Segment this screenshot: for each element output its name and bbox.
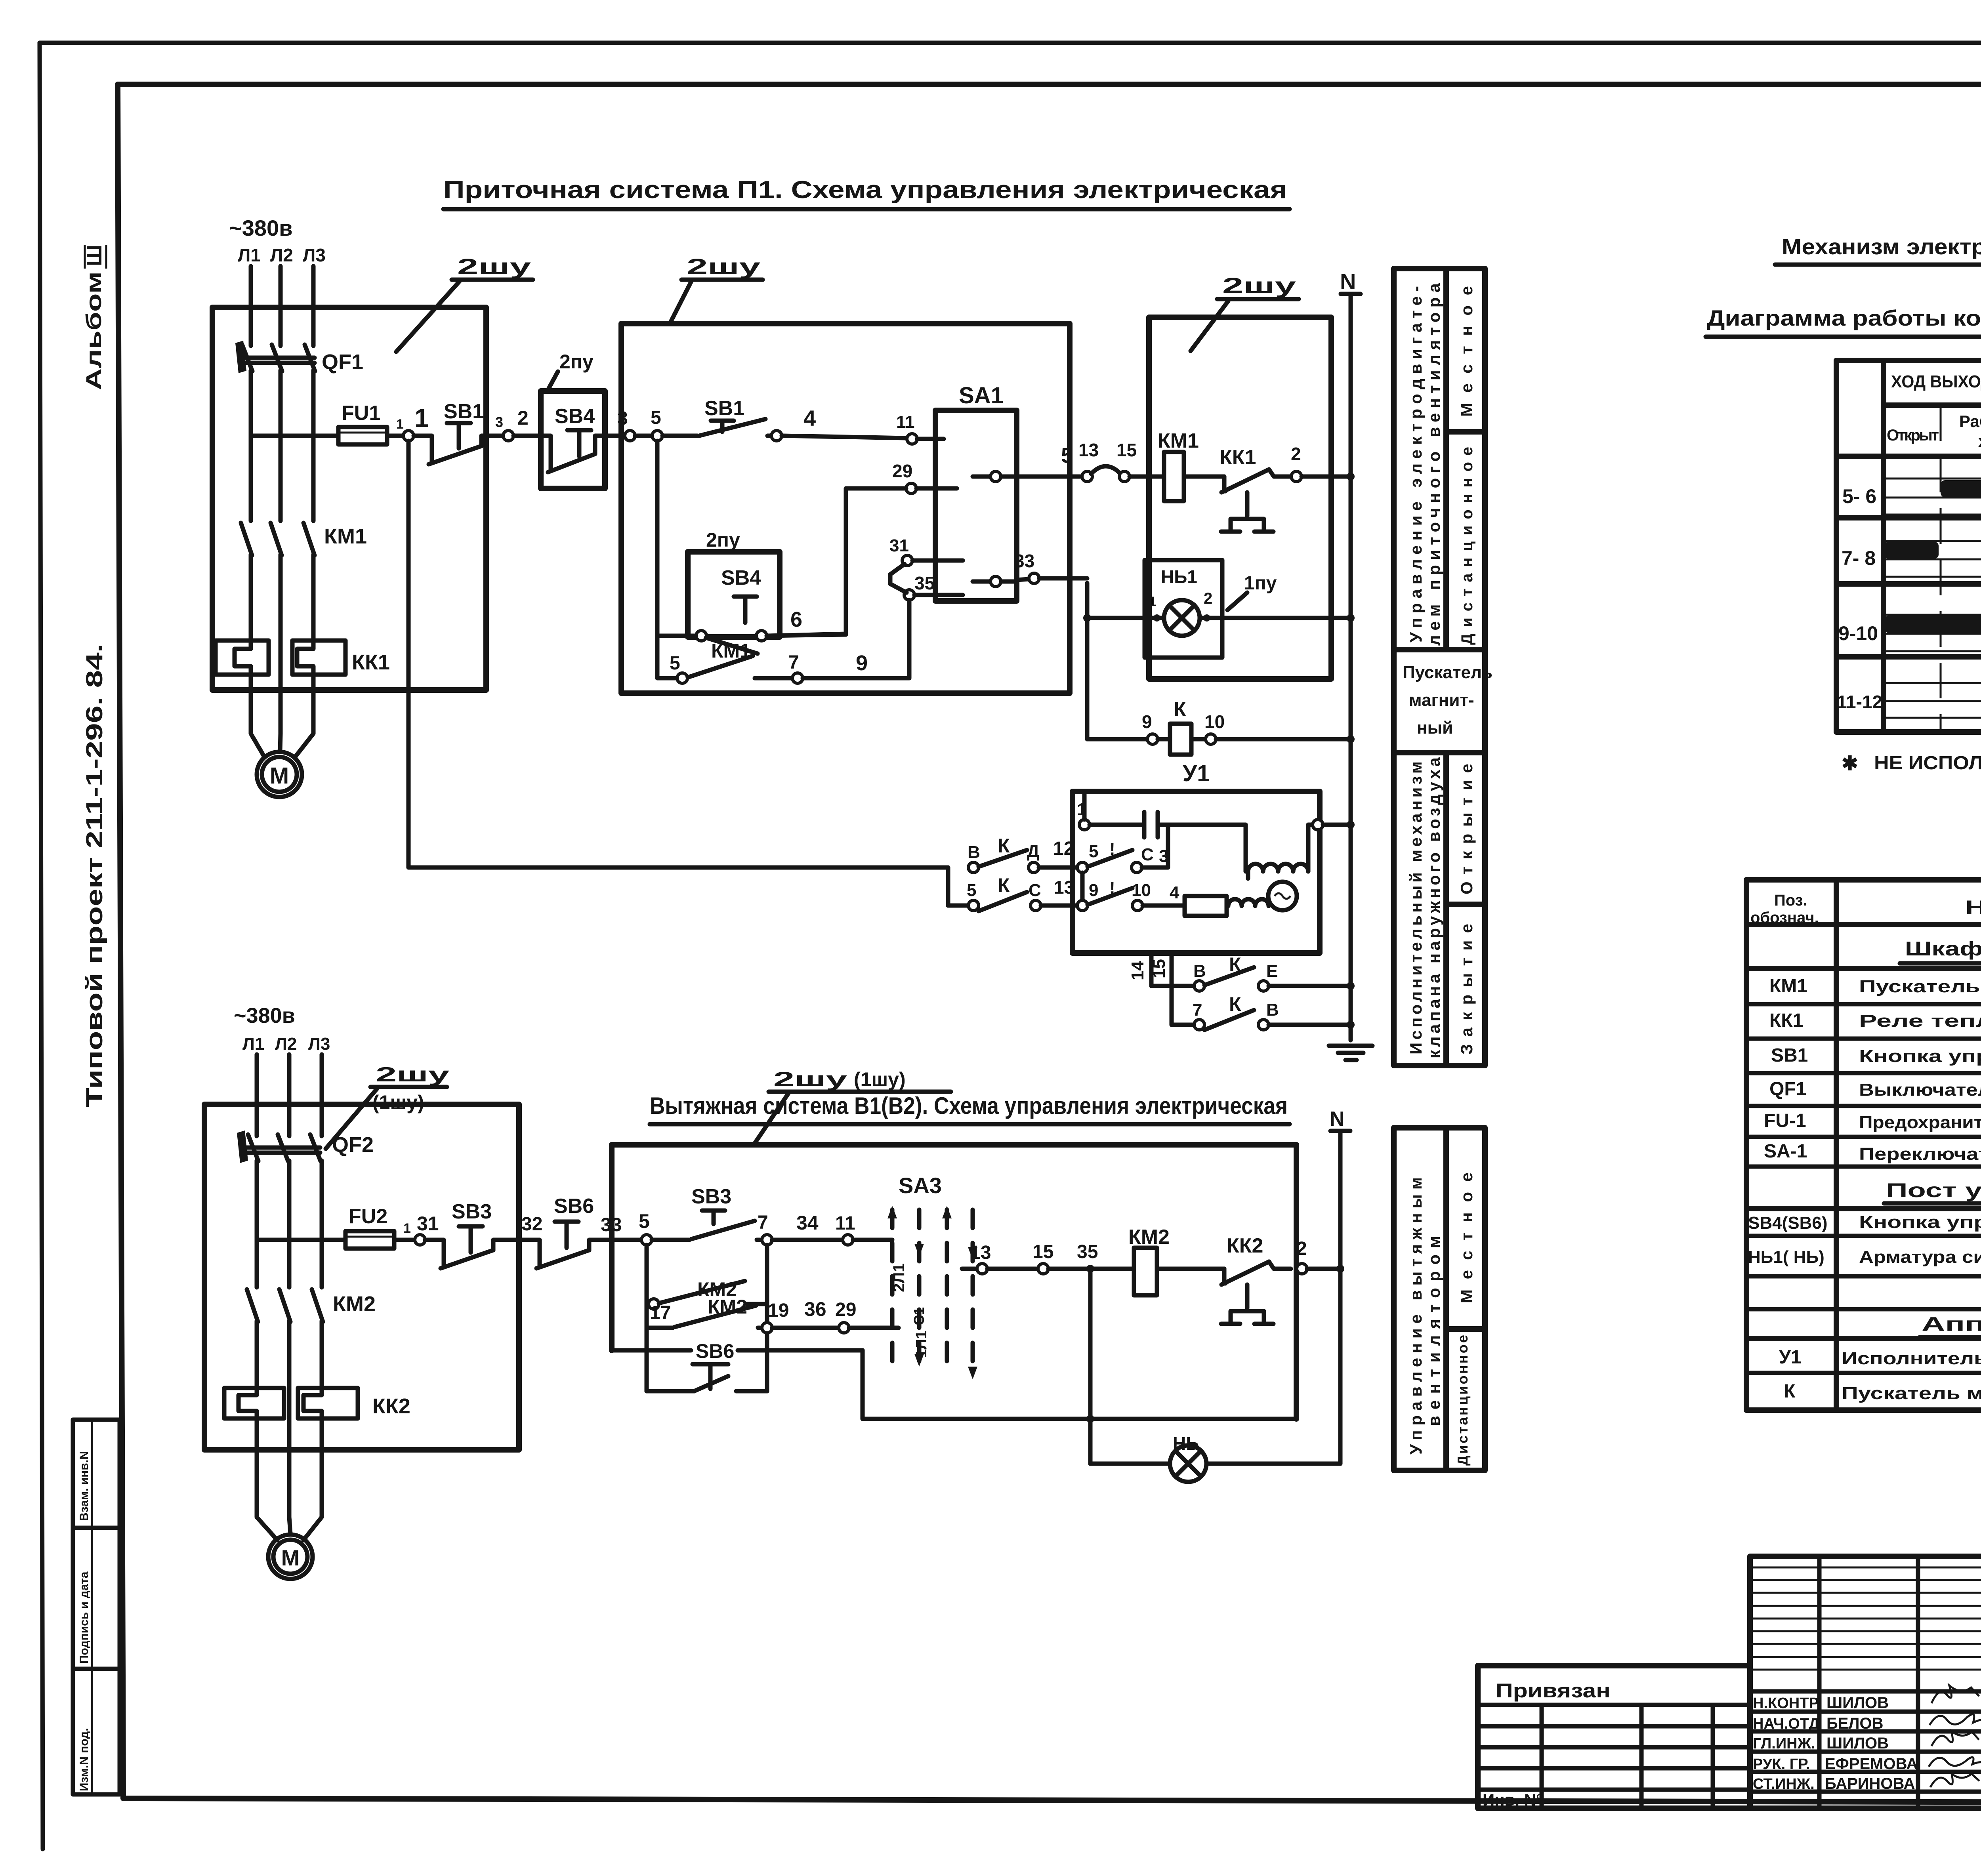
pushbutton SB1 (NC stop, cabinet) [414, 400, 503, 464]
svg-text:QF1: QF1 [1769, 1079, 1806, 1100]
stamp signatures [1753, 1685, 1981, 1792]
contactor main contacts KM2 [247, 1289, 376, 1322]
svg-text:11-12: 11-12 [1837, 692, 1882, 712]
parts section: Пост управления кнопочный [1746, 1179, 1981, 1209]
svg-text:13: 13 [1078, 440, 1099, 460]
wire L2 below QF2 [287, 1161, 292, 1287]
pushbutton post box 2ПУ [541, 391, 605, 488]
wire 2ПУ to node 3' [605, 434, 625, 438]
svg-text:7- 8: 7- 8 [1842, 547, 1876, 569]
svg-text:3: 3 [495, 414, 503, 430]
pushbutton SB4 (NC, post 2ПУ) [546, 405, 605, 472]
svg-text:ный: ный [1417, 718, 1453, 738]
svg-text:С1: С1 [911, 1307, 927, 1325]
svg-text:КМ1: КМ1 [1158, 429, 1199, 452]
wire rung2 left riser [946, 867, 950, 906]
parts row QF1 [1746, 1079, 1981, 1108]
wire phase L2 [279, 266, 283, 346]
parts row FU-1 [1746, 1110, 1981, 1137]
svg-text:SA3: SA3 [899, 1173, 942, 1198]
svg-text:НЬ1: НЬ1 [1161, 566, 1197, 587]
svg-text:15: 15 [1032, 1241, 1053, 1262]
pushbutton SB6 (NC stop, post) [527, 1195, 641, 1268]
pushbutton SB4 (NC, post, hold circuit) [657, 566, 767, 654]
svg-text:Подпись и дата: Подпись и дата [78, 1571, 91, 1664]
svg-text:SB3: SB3 [452, 1200, 492, 1223]
svg-text:клапана наружного воздуха: клапана наружного воздуха [1425, 757, 1443, 1058]
node 15 [1119, 471, 1130, 482]
wire vertical from node7 (2) [765, 1245, 769, 1391]
signal lamp HL1 [1164, 600, 1200, 636]
thermal relay heater KK1 (phase 3) [292, 641, 390, 675]
node 11 (2) [843, 1235, 853, 1245]
label column A outline [1394, 269, 1485, 1066]
wire fuse to node 1 [387, 434, 404, 438]
wire stub node 29 into SA1 [916, 486, 957, 491]
svg-text:1: 1 [414, 403, 429, 433]
parts section: Аппаратура по месту [1746, 1313, 1981, 1338]
svg-text:НЬ1( НЬ): НЬ1( НЬ) [1748, 1247, 1825, 1267]
svg-text:4: 4 [803, 406, 816, 431]
wire node35 drop to lamp [1088, 1273, 1093, 1464]
svg-text:Привязан: Привязан [1496, 1680, 1611, 1702]
svg-text:9: 9 [1142, 711, 1152, 732]
motor M2 [268, 1535, 313, 1579]
svg-text:ЕФРЕМОВА: ЕФРЕМОВА [1825, 1755, 1918, 1773]
limit switch diagram table [1836, 360, 1981, 732]
node 5 (junction to hold circuit) [652, 431, 662, 441]
wire SA1 contact2 to node 33 [1017, 579, 1029, 580]
wire node10 to N [1216, 737, 1351, 742]
parts row SB1 [1746, 1045, 1981, 1073]
wire phase L3 (2) [320, 1054, 324, 1136]
wire node33 to lamp junction [1039, 576, 1087, 581]
svg-text:Л2: Л2 [275, 1034, 297, 1054]
svg-text:2шу: 2шу [687, 254, 760, 279]
thermal relay contact KK1 (NC) [1220, 446, 1291, 532]
svg-text:SВ1: SВ1 [1771, 1045, 1808, 1066]
node 15 (2) [1038, 1264, 1048, 1274]
svg-text:Вытяжная система В1(В2). Схе: Вытяжная система В1(В2). Схема управлени… [650, 1092, 1288, 1119]
contact KM2 (aux 17-19) [647, 1296, 762, 1328]
wire node2 to N (2) [1307, 1267, 1340, 1271]
wire jumper 13-15 [1091, 466, 1120, 474]
svg-text:С: С [1141, 845, 1154, 864]
svg-text:С: С [1029, 881, 1041, 900]
svg-text:5: 5 [651, 407, 661, 428]
svg-text:КМ2: КМ2 [1128, 1226, 1170, 1249]
wire L2 below QF1 [279, 370, 283, 521]
pushbutton SB1 (NO start, cabinet) [662, 397, 771, 436]
wire coil to KK1 contact [1184, 475, 1224, 479]
svg-text:12: 12 [1053, 838, 1074, 859]
node out to N (actuator top rung) [1313, 820, 1323, 830]
svg-text:К: К [1174, 698, 1186, 721]
svg-text:Л3: Л3 [308, 1034, 330, 1054]
svg-text:Открыт: Открыт [1887, 427, 1939, 444]
node 10 (actuator) [1132, 900, 1143, 911]
svg-text:КМ2: КМ2 [333, 1292, 376, 1316]
thermal relay heater KK1 (phase 1) [216, 641, 269, 675]
signal lamp box 1ПУ [1145, 560, 1222, 658]
ground [1329, 1046, 1372, 1060]
svg-text:1: 1 [1149, 594, 1157, 609]
node 13 [1082, 471, 1092, 482]
svg-text:2шу: 2шу [1222, 273, 1296, 298]
svg-text:У1: У1 [1779, 1347, 1802, 1368]
svg-text:SA1: SA1 [959, 383, 1004, 408]
wire L3 below KM2 [320, 1321, 324, 1388]
circuit breaker QF1 [235, 341, 363, 374]
wire L1 below QF2 [255, 1161, 259, 1287]
wire control tap (2) [257, 1238, 345, 1242]
wire node11 to SA3 [853, 1238, 892, 1242]
node 33 [1029, 573, 1039, 583]
circuit breaker QF2 [237, 1131, 374, 1163]
node 3 [503, 431, 513, 441]
relay K contact В-Е rung [1151, 953, 1351, 991]
svg-text:ГЛ.ИНЖ.: ГЛ.ИНЖ. [1753, 1735, 1815, 1752]
svg-text:Пост управления кнопочный 2: Пост управления кнопочный 2ПУ(1ПУ) [1886, 1179, 1981, 1201]
svg-text:2шу: 2шу [376, 1063, 449, 1086]
node 19 [762, 1323, 772, 1333]
svg-text:7: 7 [758, 1212, 768, 1233]
svg-text:КК2: КК2 [372, 1394, 410, 1418]
svg-text:Приточная система П1. Схема: Приточная система П1. Схема управления э… [443, 176, 1287, 204]
wire L1 below QF1 [249, 370, 253, 521]
node 9 [1147, 734, 1158, 744]
wire lamp feed [1087, 583, 1164, 618]
svg-text:29: 29 [892, 461, 912, 481]
wire node13 to node15 (2) [987, 1267, 1038, 1271]
relay K contact 5-С (lower rung) [948, 874, 1027, 911]
wire node29 to node6 (self hold) [771, 488, 906, 636]
thermal relay contact KK2 (NC) [1221, 1234, 1291, 1324]
wire L2 below KM1 [279, 555, 283, 690]
wire heater KK2 to box bottom [255, 1418, 259, 1450]
wire stub node 11 into SA1 [917, 437, 944, 441]
node 2 [1291, 471, 1302, 482]
brake solenoid (rect) [1185, 896, 1269, 916]
parts row К [1784, 1381, 1981, 1404]
svg-text:13: 13 [1054, 877, 1074, 898]
wire L3 below QF2 [320, 1161, 324, 1287]
svg-text:ШИЛОВ: ШИЛОВ [1826, 1694, 1889, 1712]
svg-text:19: 19 [768, 1300, 789, 1321]
pushbutton post box 2ПУ (second) [688, 552, 780, 637]
actuator box У1 [1073, 791, 1320, 953]
wire node3' to node5 [635, 434, 652, 438]
svg-text:Типовой проект 211-1-296. 84: Типовой проект 211-1-296. 84. [82, 644, 107, 1107]
fuse FU2 [345, 1205, 394, 1249]
svg-text:SB4: SB4 [555, 405, 595, 428]
parts row SA-1 [1746, 1141, 1981, 1167]
wire node4 to node11 [782, 436, 907, 438]
node С 3 [1132, 862, 1142, 873]
svg-text:1: 1 [396, 417, 404, 432]
relay coil K [1158, 698, 1206, 755]
wire stub node31 into SA1 [912, 559, 963, 563]
svg-text:2: 2 [1204, 590, 1212, 607]
svg-text:Л3: Л3 [303, 245, 326, 265]
svg-text:У1: У1 [1183, 761, 1210, 786]
svg-text:БАРИНОВА: БАРИНОВА [1825, 1775, 1915, 1792]
svg-text:N: N [1340, 269, 1356, 294]
wire to motor M1 [251, 690, 265, 757]
svg-text:КМ1: КМ1 [324, 524, 367, 548]
junction dot N at node2 rung [1347, 473, 1355, 480]
svg-text:2: 2 [1296, 1238, 1307, 1259]
pushbutton SB3 (NO start, cabinet) [652, 1185, 762, 1240]
junction node 35 riser (2) [1086, 1265, 1094, 1273]
wire node7 to node35 riser [803, 600, 909, 678]
selector switch SA1 [935, 383, 1017, 601]
svg-text:Н.КОНТР: Н.КОНТР [1753, 1695, 1819, 1712]
svg-text:Кнопка управления КЕ: Кнопка управления КЕ [1859, 1213, 1981, 1232]
diagram row 5-6 [1842, 479, 1981, 515]
svg-text:Предохранитель плавкий трубч: Предохранитель плавкий трубчатый [1859, 1113, 1981, 1132]
node 31 (2) [415, 1235, 425, 1245]
svg-text:КК2: КК2 [1227, 1234, 1263, 1257]
node 31 [902, 555, 912, 566]
svg-text:ХОД ВЫХОДНОГО ВАЛА: ХОД ВЫХОДНОГО ВАЛА [1891, 372, 1981, 391]
svg-text:Рабочий: Рабочий [1959, 412, 1981, 431]
svg-text:Шкаф управления ШУ: Шкаф управления ШУ [1905, 938, 1981, 960]
svg-text:Исполнительный механизм МЭО-: Исполнительный механизм МЭО-4/63-03 [1842, 1349, 1981, 1368]
SA1 moving contact 1 [973, 471, 1017, 482]
actuator motor winding [1246, 825, 1308, 879]
parts row У1 [1746, 1347, 1981, 1373]
svg-text:2: 2 [1291, 444, 1301, 464]
net N (neutral, upper) [1340, 269, 1361, 1040]
node 11 [907, 434, 917, 444]
svg-text:7: 7 [788, 652, 799, 673]
wire to motor M2 [257, 1450, 277, 1540]
wire node1 long feed to actuator rungs [408, 441, 948, 867]
svg-text:НЕ ИСПОЛЬЗУЕТСЯ: НЕ ИСПОЛЬЗУЕТСЯ [1874, 753, 1981, 774]
wire heater to box bottom L1 [249, 675, 253, 690]
svg-text:7: 7 [1193, 1000, 1202, 1020]
svg-text:9: 9 [856, 651, 868, 675]
label column B outline [1394, 1128, 1485, 1470]
svg-text:FU1: FU1 [342, 402, 380, 425]
svg-text:✱: ✱ [1842, 752, 1858, 774]
svg-text:Механизм электрический У1: Механизм электрический У1 [1782, 234, 1981, 259]
wire node29 to SA3 [849, 1326, 899, 1330]
svg-text:В: В [1266, 1000, 1279, 1020]
svg-text:35: 35 [914, 573, 935, 593]
svg-text:2шу: 2шу [773, 1068, 847, 1091]
wire L2 below KM2 [287, 1321, 292, 1450]
svg-text:11: 11 [896, 412, 915, 432]
svg-text:SВ4(SВ6): SВ4(SВ6) [1748, 1213, 1828, 1233]
svg-text:2пу: 2пу [706, 529, 740, 551]
wire lamp to N [1200, 616, 1351, 620]
svg-text:Выключатель автоматический: Выключатель автоматический [1859, 1080, 1981, 1100]
svg-text:Арматура сигнальной лампы А: Арматура сигнальной лампы АС [1859, 1247, 1981, 1267]
svg-text:SB6: SB6 [554, 1195, 594, 1218]
control box 2ШУ(1ШУ) outline [612, 1068, 1296, 1419]
svg-text:1пу: 1пу [1244, 573, 1277, 594]
node 4 [771, 431, 782, 441]
svg-text:SB3: SB3 [691, 1185, 731, 1208]
svg-text:~380в: ~380в [234, 1004, 295, 1028]
svg-text:9-10: 9-10 [1838, 622, 1878, 644]
svg-text:FU-1: FU-1 [1764, 1110, 1806, 1131]
svg-text:Л2: Л2 [270, 245, 293, 265]
svg-text:НАЧ.ОТД: НАЧ.ОТД [1753, 1716, 1819, 1732]
svg-text:5- 6: 5- 6 [1842, 485, 1876, 507]
power cabinet box (system B1) [204, 1104, 519, 1450]
node 5 (2) [641, 1235, 652, 1245]
wire lamp to N (2) [1206, 1462, 1340, 1466]
node С 13 [1031, 900, 1041, 911]
wire stub node35 into SA1 [914, 593, 963, 597]
contactor coil KM1 [1158, 429, 1199, 501]
margin stamp box (Изм/Подпись/Взам.инв) [73, 1420, 120, 1794]
svg-text:Пускатель магнитный кат.~220: Пускатель магнитный кат.~220в ПМЕ121 [1842, 1384, 1981, 1403]
wire node2 to N [1302, 475, 1351, 479]
svg-text:Л1: Л1 [238, 245, 261, 265]
wire lamp branch down to relay K rung [1085, 618, 1090, 739]
wire node15 to KM2 coil [1048, 1267, 1134, 1271]
svg-text:(1шу): (1шу) [372, 1091, 424, 1113]
svg-text:Пускатель: Пускатель [1403, 663, 1492, 682]
wire node15 to KM1 coil [1130, 475, 1164, 479]
svg-text:Инв. N°: Инв. N° [1483, 1790, 1543, 1809]
svg-text:РУК. ГР.: РУК. ГР. [1753, 1756, 1810, 1773]
relay K contact В (open rung) [968, 835, 1027, 873]
diagram row 7-8 [1842, 541, 1981, 577]
svg-text:Пускатель магнитный: Пускатель магнитный [1859, 977, 1981, 996]
title block (stamp) [1750, 1556, 1981, 1808]
net N (neutral, lower) [1330, 1108, 1350, 1464]
parts row КК1 [1746, 1010, 1981, 1039]
pushbutton SB3 (NC stop) [425, 1200, 527, 1268]
coil cabinet box outline [1149, 317, 1331, 679]
svg-text:М: М [270, 763, 289, 789]
svg-text:FU2: FU2 [349, 1205, 387, 1228]
svg-text:SB1: SB1 [444, 400, 484, 423]
svg-text:К: К [1229, 993, 1241, 1015]
wire node7 to node11 (2) [772, 1238, 843, 1242]
svg-text:Диаграмма работы конечных в: Диаграмма работы конечных выключателей [1707, 305, 1981, 330]
svg-text:М: М [281, 1545, 300, 1570]
empty row line [1746, 1307, 1981, 1312]
svg-text:ход: ход [1978, 432, 1981, 450]
svg-text:N: N [1330, 1108, 1345, 1131]
svg-text:34: 34 [796, 1212, 819, 1234]
motor M1 [257, 752, 302, 797]
svg-text:36: 36 [804, 1298, 826, 1320]
sheet edge left [40, 43, 43, 1849]
node 13 (2) [977, 1264, 987, 1274]
contact KM1 (self hold aux) [657, 640, 792, 683]
svg-text:Взам. инв.N: Взам. инв.N [78, 1451, 91, 1521]
svg-text:5: 5 [670, 653, 680, 674]
relay K contact 7-В rung [1172, 993, 1351, 1030]
node 12-13 riser [1077, 862, 1088, 873]
node 7 [792, 673, 803, 683]
thermal relay heater KK2 (phase 1) [224, 1388, 284, 1418]
node 9 (actuator) [1077, 900, 1088, 911]
svg-text:К: К [998, 874, 1010, 896]
svg-text:5: 5 [1061, 444, 1073, 467]
wire hold vertical from node5 (2) [645, 1245, 649, 1391]
svg-text:5: 5 [1089, 842, 1098, 861]
svg-text:Поз.: Поз. [1774, 892, 1807, 909]
wire SA1 contact1 to node 13 [1017, 475, 1082, 479]
selector switch SA3 (dashed linkage) [887, 1173, 977, 1379]
wire L3 below KM1 [311, 555, 316, 641]
control box 2ШУ outline [621, 324, 1070, 693]
node 3' [625, 431, 635, 441]
capacitor C [1090, 812, 1246, 837]
svg-text:2Л1: 2Л1 [890, 1263, 908, 1292]
svg-text:6: 6 [790, 608, 802, 631]
parts row НЬ1(НЬ) [1746, 1247, 1981, 1276]
svg-text:2пу: 2пу [559, 351, 594, 373]
svg-text:35: 35 [1077, 1241, 1098, 1262]
wire hold-circuit vertical from node 5 [655, 441, 660, 677]
wire numbers 14 15 (risers from box) [1149, 953, 1154, 986]
fuse FU1 [338, 402, 387, 444]
svg-text:2шу: 2шу [457, 254, 531, 279]
wire node6 junction [767, 635, 846, 636]
svg-text:КК1: КК1 [1769, 1010, 1803, 1031]
signal lamp HL (2) [1170, 1433, 1206, 1482]
wire fuse2 to node 31 [394, 1238, 415, 1242]
sheet edge top [40, 41, 1981, 45]
wire node19 to node29 (2) [772, 1326, 839, 1330]
svg-text:К: К [1784, 1381, 1796, 1402]
svg-text:SB6: SB6 [696, 1340, 734, 1362]
wire SA3 to node 13 (2) [962, 1267, 977, 1271]
svg-text:15: 15 [1149, 959, 1169, 978]
wire phase L3 [311, 266, 316, 346]
contactor main contacts KM1 [241, 523, 367, 555]
svg-text:QF2: QF2 [332, 1133, 374, 1157]
wire rung1 up to cap wire [1142, 825, 1168, 867]
svg-text:SА-1: SА-1 [1764, 1141, 1807, 1162]
svg-text:10: 10 [1204, 711, 1225, 732]
node 35 [904, 590, 914, 600]
svg-text:14: 14 [1128, 961, 1147, 980]
wire lamp rung left [1090, 1462, 1170, 1466]
svg-text:магнит-: магнит- [1409, 690, 1474, 710]
svg-text:Исполнительный механизм: Исполнительный механизм [1407, 761, 1425, 1054]
thermal relay heater KK2 (phase 3) [298, 1388, 410, 1418]
svg-text:4: 4 [1170, 883, 1179, 902]
wire phase L1 (2) [255, 1054, 259, 1136]
svg-text:Ш: Ш [82, 245, 106, 266]
svg-text:QF1: QF1 [322, 350, 363, 374]
node Д 12 [1029, 862, 1039, 873]
svg-text:КМ1: КМ1 [1769, 976, 1807, 997]
svg-text:29: 29 [835, 1299, 856, 1320]
svg-text:5: 5 [967, 881, 976, 900]
svg-text:1Л1: 1Л1 [913, 1331, 930, 1358]
parts section: Шкаф управления ШУ [1746, 938, 1981, 969]
svg-text:31: 31 [417, 1213, 439, 1235]
svg-text:Альбом: Альбом [82, 271, 106, 390]
pushbutton SB6 (second contact) rung [612, 1340, 863, 1391]
SA1 moving contact 2 [973, 576, 1017, 587]
svg-text:КК1: КК1 [352, 650, 390, 674]
wire control tap from L1 [251, 434, 338, 438]
svg-text:Л1: Л1 [242, 1034, 264, 1054]
binding box Привязан [1478, 1666, 1750, 1809]
